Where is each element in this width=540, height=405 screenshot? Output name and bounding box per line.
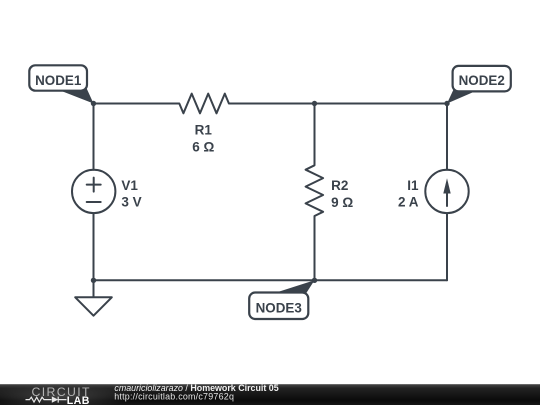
svg-text:V1: V1 (121, 178, 138, 193)
svg-text:NODE1: NODE1 (35, 73, 82, 88)
svg-text:NODE2: NODE2 (459, 73, 505, 88)
svg-text:9 Ω: 9 Ω (331, 195, 353, 210)
svg-text:LAB: LAB (67, 395, 90, 405)
svg-text:NODE3: NODE3 (256, 300, 302, 315)
svg-text:2 A: 2 A (398, 194, 419, 209)
svg-text:I1: I1 (407, 178, 419, 193)
svg-text:R1: R1 (195, 123, 213, 138)
svg-text:6 Ω: 6 Ω (192, 140, 214, 155)
svg-text:3 V: 3 V (121, 195, 141, 210)
svg-text:http://circuitlab.com/c79762q: http://circuitlab.com/c79762q (114, 392, 234, 402)
svg-text:R2: R2 (331, 178, 348, 193)
